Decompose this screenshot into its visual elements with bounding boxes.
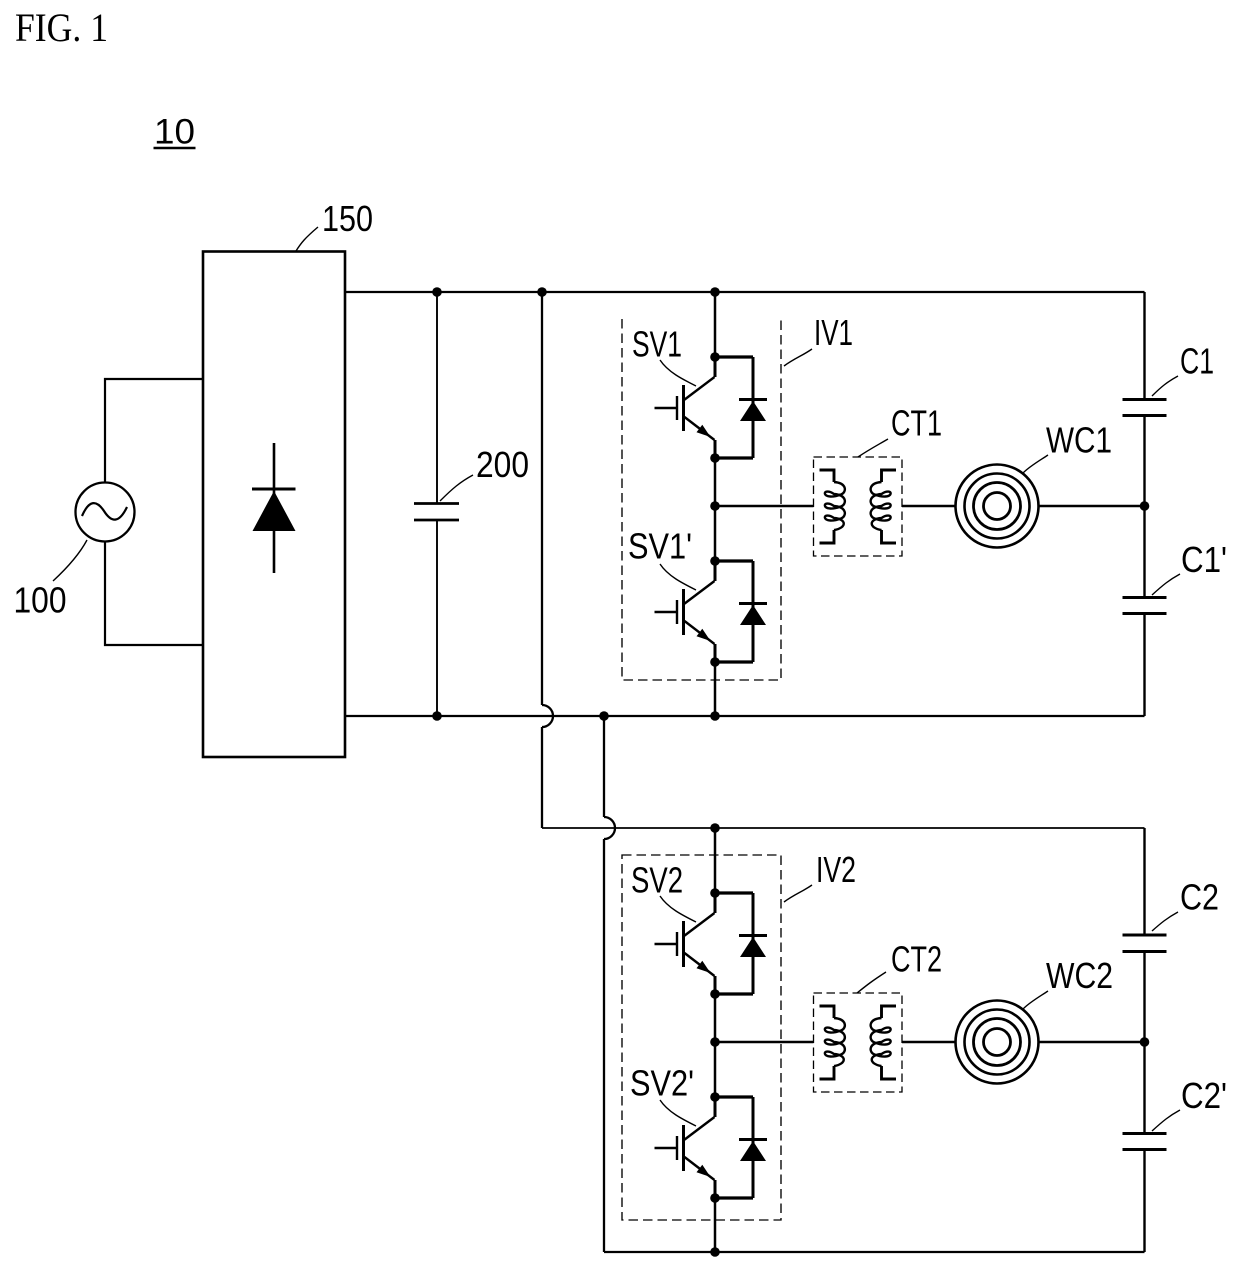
wire: loop1 right bus lower (1143, 614, 1145, 716)
wire: SV1' bottom jumper from diode (715, 660, 753, 663)
wire: loop2 right bus upper (1143, 828, 1145, 935)
diode: antiparallel diode of SV2 (739, 893, 767, 994)
node: SV2' emitter junction (710, 1193, 720, 1203)
svg-text:10: 10 (154, 113, 195, 152)
node: loop2 right mid junction (1140, 1037, 1150, 1047)
svg-text:SV2: SV2 (631, 860, 683, 901)
wire: DC+ top bus (345, 291, 1145, 293)
diode: rectifier diode symbol (252, 443, 296, 573)
transistor SV1 (IGBT) (655, 357, 716, 458)
wire: CT2 to WC2 (902, 1041, 956, 1043)
leader line for 150 (296, 227, 318, 251)
node: inverter2 bottom junction (710, 1247, 720, 1257)
leader line for SV1&#39; (660, 564, 696, 590)
node: SV1' emitter junction (710, 657, 720, 667)
wire: AC source to rectifier (bottom) (105, 542, 203, 646)
transistor SV2 (IGBT) (655, 893, 716, 994)
leader line for SV2 (660, 896, 696, 922)
node: inverter2 output node (710, 1037, 720, 1047)
wire: center line between SV1 and SV1&#39; (714, 458, 717, 561)
current transformer CT1 dashed box (814, 457, 903, 556)
wire: inverter1 output to CT1 (715, 505, 814, 507)
svg-text:SV1': SV1' (628, 526, 692, 567)
svg-text:IV1: IV1 (814, 312, 853, 353)
transistor SV1' (IGBT) (655, 561, 716, 662)
wire: CT1 to WC1 (902, 505, 956, 507)
node: SV1 emitter junction (710, 453, 720, 463)
wire: DC- feed to inverter 2 (hops over top wire) (604, 716, 615, 1252)
capacitor 200 (DC link) (414, 292, 459, 716)
capacitor C2 plates (1123, 935, 1167, 952)
current transformer CT2 dashed box (814, 993, 903, 1092)
leader line for WC2 (1023, 991, 1048, 1009)
svg-text:C2': C2' (1181, 1075, 1227, 1116)
leader line for IV1 (784, 349, 812, 366)
wire: inverter2 output to CT2 (715, 1041, 814, 1043)
node: inverter2 top junction (710, 823, 720, 833)
svg-text:C1: C1 (1180, 341, 1214, 382)
winding: CT2 secondary (right) (871, 1006, 896, 1079)
node: DC- tap for inverter 2 (599, 711, 609, 721)
wire: center line bottom (IV2) (714, 1198, 717, 1252)
leader line for C1 (1152, 376, 1178, 396)
node: inverter1 bottom junction (710, 711, 720, 721)
node: SV2 emitter junction (710, 989, 720, 999)
wire: loop1 right bus upper (1143, 292, 1145, 399)
leader line for 100 (53, 540, 87, 581)
inverter IV2 dashed box (622, 855, 781, 1220)
wire: SV2' top jumper to diode (715, 1095, 753, 1098)
wire: SV1 top jumper to diode (715, 355, 753, 358)
wire: SV2 top jumper to diode (715, 891, 753, 894)
svg-text:C2: C2 (1180, 877, 1219, 918)
node: cap200 bottom tap (432, 711, 442, 721)
node: inverter1 output node (710, 501, 720, 511)
leader line for SV2&#39; (660, 1100, 696, 1126)
wire: WC1 to right bus (1039, 505, 1145, 507)
node: SV1 collector junction (710, 352, 720, 362)
wire: center line bottom (IV1) (714, 662, 717, 716)
node: DC+ tap for inverter 2 (537, 287, 547, 297)
capacitor C1 plates (1123, 400, 1167, 416)
node: SV2 collector junction (710, 888, 720, 898)
svg-text:SV1: SV1 (632, 324, 682, 365)
leader line for SV1 (660, 360, 696, 386)
node: loop1 right mid junction (1140, 501, 1150, 511)
AC source 100 (76, 483, 135, 542)
leader line for C1&#39; (1152, 574, 1180, 595)
rectifier 150 box (203, 252, 345, 758)
wire: AC source to rectifier (top) (105, 379, 203, 483)
leader line for WC1 (1023, 455, 1048, 473)
wire: SV2 bottom jumper from diode (715, 992, 753, 995)
wire: center line top (IV1) (714, 292, 717, 357)
wire: DC- bottom bus (345, 715, 1145, 717)
svg-text:IV2: IV2 (816, 849, 856, 890)
wire: DC+ feed to inverter 2 (hops over DC- bus) (542, 292, 553, 828)
wire: loop2 right bus middle (1143, 952, 1145, 1133)
work coil WC1 (concentric circles) (956, 465, 1039, 548)
winding: CT1 primary (left) (820, 470, 845, 543)
svg-text:FIG. 1: FIG. 1 (15, 5, 108, 50)
node: cap200 top tap (432, 287, 442, 297)
node: inverter1 top junction (710, 287, 720, 297)
wire: SV2' bottom jumper from diode (715, 1196, 753, 1199)
svg-text:WC1: WC1 (1046, 420, 1112, 461)
svg-text:CT2: CT2 (891, 939, 942, 980)
wire: inverter2 bottom bus (604, 1251, 1145, 1253)
wire: center line between SV2 and SV2&#39; (714, 994, 717, 1097)
diode: antiparallel diode of SV1 (739, 357, 767, 458)
leader line for C2 (1152, 912, 1178, 931)
node: SV2' collector junction (710, 1092, 720, 1102)
wire: center line top (IV2) (714, 828, 717, 893)
svg-text:200: 200 (476, 444, 529, 485)
svg-text:WC2: WC2 (1046, 955, 1113, 996)
diode: antiparallel diode of SV1' (739, 561, 767, 662)
leader line for IV2 (784, 885, 812, 902)
svg-text:100: 100 (14, 580, 67, 621)
inverter IV1 dashed box (open top) (622, 319, 781, 680)
wire: loop2 right bus lower (1143, 1150, 1145, 1252)
diode: antiparallel diode of SV2' (739, 1097, 767, 1198)
node: SV1' collector junction (710, 556, 720, 566)
winding: CT1 secondary (right) (871, 470, 896, 543)
leader line for 200 (440, 475, 473, 501)
svg-text:CT1: CT1 (891, 403, 942, 444)
wire: inverter2 top wire (542, 827, 1145, 829)
wire: SV1' top jumper to diode (715, 559, 753, 562)
wire: SV1 bottom jumper from diode (715, 456, 753, 459)
capacitor C1' plates (1123, 598, 1167, 614)
leader line for C2&#39; (1152, 1110, 1180, 1131)
wire: loop1 right bus middle (1143, 416, 1145, 597)
svg-text:C1': C1' (1181, 539, 1227, 580)
wire: WC2 to right bus (1039, 1041, 1145, 1043)
leader line for CT2 (857, 972, 886, 993)
svg-text:150: 150 (322, 198, 373, 239)
winding: CT2 primary (left) (820, 1006, 845, 1079)
leader line for CT1 (858, 439, 888, 457)
transistor SV2' (IGBT) (655, 1097, 716, 1198)
work coil WC2 (concentric circles) (956, 1001, 1039, 1084)
svg-text:SV2': SV2' (630, 1063, 694, 1104)
capacitor C2' plates (1123, 1134, 1167, 1150)
